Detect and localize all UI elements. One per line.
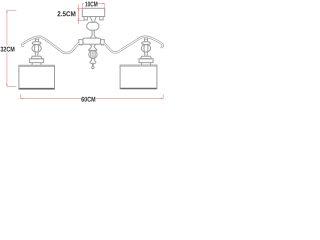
dimension 10CM lines — [82, 4, 104, 9]
label 10CM — [84, 0, 98, 7]
right holder socket — [141, 63, 150, 66]
label 60CM — [81, 95, 96, 103]
dimension 2.5CM arrowhead top — [78, 8, 80, 10]
right holder hanger stem — [145, 38, 148, 41]
left lamp holder — [30, 38, 44, 65]
right holder base discs — [141, 56, 152, 59]
left shade top rim — [19, 65, 55, 67]
left drum shade — [19, 65, 55, 89]
center collar — [92, 59, 95, 61]
bar end block left — [79, 40, 83, 46]
dimension 10CM arrowhead right — [102, 3, 104, 5]
dimension 60CM arrowhead right — [161, 98, 163, 100]
bar end block right — [101, 40, 105, 46]
left holder base discs — [31, 56, 42, 59]
center cross bar — [83, 38, 101, 44]
right lamp holder — [139, 38, 153, 65]
dimension 32CM arrowhead top — [6, 10, 8, 12]
left arm (double-line scroll) — [22, 37, 79, 53]
stem knob — [87, 22, 99, 30]
stem bowtie coupler — [89, 17, 96, 23]
dimension 32CM arrowhead bottom — [6, 84, 8, 86]
center finial tip ball — [92, 67, 94, 69]
dimension 32CM lines — [7, 10, 16, 86]
canopy foot right — [100, 17, 103, 20]
dimension 60CM arrowhead left — [21, 98, 23, 100]
dimension 60CM lines — [21, 94, 164, 98]
left holder socket — [32, 63, 41, 66]
left holder hanger stem — [36, 38, 39, 41]
center candle cup — [88, 44, 97, 50]
right shade bottom rim — [120, 87, 156, 89]
right holder ribbed ball — [141, 45, 150, 53]
label 2.5CM — [57, 11, 75, 16]
right holder top disc — [142, 42, 151, 45]
dimension 2.5CM lines — [77, 4, 85, 24]
center ribbed ball — [89, 50, 97, 58]
right holder waist — [144, 52, 147, 56]
right drum shade — [120, 65, 157, 89]
background — [0, 0, 166, 104]
center lower flare — [90, 61, 96, 64]
left holder top disc — [32, 42, 41, 45]
center finial tail — [92, 63, 93, 66]
left holder ribbed ball — [32, 45, 41, 53]
left shade bottom rim — [19, 88, 54, 90]
canopy ceiling plate — [82, 8, 104, 16]
right shade top rim — [120, 65, 157, 67]
right arm (double-line scroll) — [104, 37, 163, 53]
canopy foot left — [84, 17, 87, 20]
dimension 2.5CM arrowhead bottom — [78, 18, 80, 20]
stem neck — [90, 30, 97, 38]
left holder waist — [35, 52, 38, 56]
label 32CM — [0, 46, 15, 53]
dimension 10CM arrowhead left — [82, 3, 84, 5]
